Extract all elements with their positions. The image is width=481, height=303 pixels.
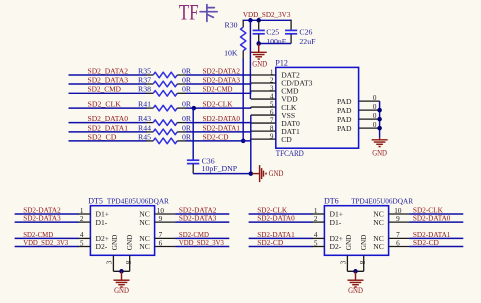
wire SD2_DATA1 <box>69 131 147 133</box>
resistor R30 <box>241 20 246 58</box>
svg-text:10pF_DNP: 10pF_DNP <box>202 164 238 173</box>
svg-text:R45: R45 <box>138 132 151 141</box>
svg-text:0: 0 <box>373 121 377 129</box>
svg-text:7: 7 <box>270 116 274 124</box>
wire SD2-DATA0 to P12 pin 7 <box>186 122 251 124</box>
svg-text:D2-: D2- <box>96 242 108 251</box>
svg-text:GND: GND <box>345 235 353 251</box>
svg-text:SD2-CLK: SD2-CLK <box>203 100 233 109</box>
svg-text:8: 8 <box>270 124 274 132</box>
wire PAD bus <box>379 101 381 138</box>
svg-text:D1-: D1- <box>330 218 342 227</box>
junction PAD 3 <box>377 117 382 122</box>
ESD diode DT6 body <box>324 206 388 256</box>
svg-text:4: 4 <box>270 92 274 100</box>
pin 9 stub right <box>389 221 410 223</box>
svg-text:1: 1 <box>270 68 274 76</box>
junction ground DT5 <box>119 269 124 274</box>
svg-text:R30: R30 <box>225 21 238 30</box>
capacitor C25 <box>253 20 265 43</box>
wire SD2-CLK to C36 <box>192 108 194 160</box>
svg-text:5: 5 <box>80 239 84 247</box>
svg-text:SD2_CMD: SD2_CMD <box>88 85 122 94</box>
wire SD2-DATA0 left <box>249 221 313 223</box>
svg-text:0: 0 <box>373 94 377 102</box>
wire SD2_CD <box>69 140 147 142</box>
svg-text:NC: NC <box>373 218 384 227</box>
wire SD2_DATA3 <box>69 83 147 85</box>
svg-text:VDD_SD2_3V3: VDD_SD2_3V3 <box>23 238 68 247</box>
ESD diode DT5 body <box>90 206 154 256</box>
junction ground DT6 <box>353 269 358 274</box>
wire SD2-DATA1 left <box>249 237 313 239</box>
svg-text:NC: NC <box>139 242 150 251</box>
svg-text:SD2_CD: SD2_CD <box>88 132 117 141</box>
svg-text:GND: GND <box>111 235 119 251</box>
wire R30 to SD2-CD <box>242 59 244 141</box>
svg-text:TPD4E05U06DQAR: TPD4E05U06DQAR <box>107 197 170 206</box>
wire SD2-CMD left <box>15 237 79 239</box>
wire SD2_CMD <box>69 92 147 94</box>
svg-text:VDD_SD2_3V3: VDD_SD2_3V3 <box>179 238 224 247</box>
pin 8 stub bottom <box>129 255 131 271</box>
svg-text:R38: R38 <box>138 85 151 94</box>
pin 6 stub right <box>155 246 176 248</box>
svg-text:DT6: DT6 <box>324 197 339 206</box>
wire SD2-DATA0 right <box>409 221 463 223</box>
svg-text:C25: C25 <box>266 27 279 36</box>
ground DT5 <box>114 271 130 287</box>
svg-text:D2-: D2- <box>330 242 342 251</box>
resistor R38 <box>146 91 186 97</box>
resistor R41 <box>146 105 186 111</box>
junction cap bottom <box>256 41 261 46</box>
svg-text:2: 2 <box>80 215 84 223</box>
svg-text:PAD: PAD <box>337 106 352 115</box>
svg-text:GND: GND <box>372 148 387 157</box>
pin 1 stub <box>251 74 276 76</box>
svg-text:SD2-DATA3: SD2-DATA3 <box>179 214 217 223</box>
wire cap bottoms <box>259 43 291 45</box>
pin 3 stub bottom <box>112 255 114 271</box>
junction PAD 2 <box>377 108 382 113</box>
svg-text:0R: 0R <box>182 114 192 123</box>
pin 5 stub left <box>312 246 324 248</box>
wire SD2_CLK <box>69 107 147 109</box>
svg-text:5: 5 <box>314 239 318 247</box>
ground under C25 <box>251 44 267 60</box>
svg-text:R37: R37 <box>138 75 151 84</box>
junction C25 top <box>256 18 261 23</box>
svg-text:CD: CD <box>281 135 292 144</box>
svg-text:0R: 0R <box>182 75 192 84</box>
wire SD2-CD to P12 pin 9 <box>186 139 251 141</box>
svg-text:C26: C26 <box>299 27 312 36</box>
svg-text:SD2_DATA0: SD2_DATA0 <box>88 114 129 123</box>
svg-text:TFCARD: TFCARD <box>276 149 304 158</box>
connector P12 body <box>276 67 359 148</box>
svg-text:SD2-DATA2: SD2-DATA2 <box>203 66 241 75</box>
svg-text:1: 1 <box>80 207 84 215</box>
pin 6 stub right <box>389 246 410 248</box>
svg-text:10K: 10K <box>224 49 238 58</box>
pin 9 stub <box>251 138 276 140</box>
svg-text:SD2_CLK: SD2_CLK <box>88 100 122 109</box>
resistor R35 <box>146 72 186 78</box>
svg-text:0R: 0R <box>182 123 192 132</box>
pin 7 stub right <box>155 237 176 239</box>
pin 8 stub <box>251 130 276 132</box>
svg-text:1: 1 <box>314 207 318 215</box>
svg-text:SD2-CD: SD2-CD <box>257 238 283 247</box>
svg-text:R44: R44 <box>138 123 151 132</box>
wire VDD_SD2_3V3 left <box>15 246 79 248</box>
svg-text:SD2_DATA3: SD2_DATA3 <box>88 75 129 84</box>
wire SD2-CLK right <box>409 213 463 215</box>
wire VSS to ground <box>250 115 252 174</box>
svg-text:PAD: PAD <box>337 97 352 106</box>
svg-text:P12: P12 <box>275 58 287 67</box>
svg-text:NC: NC <box>139 218 150 227</box>
wire SD2-CD left <box>249 246 313 248</box>
svg-text:GND: GND <box>269 169 284 178</box>
svg-text:2: 2 <box>314 215 318 223</box>
ground DT6 <box>348 271 364 287</box>
PAD pin stub <box>359 100 380 102</box>
title glyph KA (card) drawn strokes <box>200 5 217 22</box>
ground PAD pins <box>372 138 388 147</box>
svg-text:R35: R35 <box>138 66 151 75</box>
wire SD2-CLK to P12 pin 5 <box>186 107 251 108</box>
pin 10 stub right <box>155 213 176 215</box>
svg-text:SD2_DATA2: SD2_DATA2 <box>88 66 129 75</box>
svg-text:SD2-DATA1: SD2-DATA1 <box>203 123 241 132</box>
svg-text:R41: R41 <box>138 100 151 109</box>
svg-text:0R: 0R <box>182 66 192 75</box>
pin 9 stub right <box>155 221 176 223</box>
wire SD2-CMD to P12 pin 3 <box>186 91 251 93</box>
pin 8 stub bottom <box>363 255 365 271</box>
svg-text:SD2-DATA3: SD2-DATA3 <box>203 75 241 84</box>
junction PAD 4 <box>377 126 382 131</box>
svg-text:3: 3 <box>106 260 114 264</box>
resistor R45 <box>146 138 186 144</box>
pin 7 stub <box>251 122 276 124</box>
svg-text:0: 0 <box>373 112 377 120</box>
PAD pin stub <box>359 109 380 111</box>
wire SD2-DATA2 left <box>15 213 79 215</box>
svg-text:GND: GND <box>348 286 363 295</box>
wire SD2-CD right <box>409 246 463 248</box>
svg-text:PAD: PAD <box>337 115 352 124</box>
svg-text:PAD: PAD <box>337 124 352 133</box>
svg-text:DT5: DT5 <box>88 197 103 206</box>
svg-text:GND: GND <box>252 59 267 68</box>
wire SD2-DATA1 right <box>409 237 463 239</box>
svg-text:5: 5 <box>270 100 274 108</box>
svg-text:NC: NC <box>373 242 384 251</box>
svg-text:9: 9 <box>270 132 274 140</box>
svg-text:8: 8 <box>359 260 367 264</box>
wire SD2-DATA2 to P12 pin 1 <box>186 74 251 76</box>
wire SD2-DATA3 to P12 pin 2 <box>186 82 251 85</box>
svg-text:0: 0 <box>373 103 377 111</box>
wire ground pins <box>347 270 363 272</box>
svg-text:SD2-DATA0: SD2-DATA0 <box>203 114 241 123</box>
svg-text:SD2-DATA3: SD2-DATA3 <box>23 214 61 223</box>
wire SD2_DATA0 <box>69 122 147 124</box>
pin 5 stub left <box>78 246 90 248</box>
svg-text:2: 2 <box>270 76 274 84</box>
pin 2 stub <box>251 82 276 84</box>
pin 4 stub <box>251 98 276 100</box>
svg-text:0R: 0R <box>182 132 192 141</box>
resistor R43 <box>146 120 186 126</box>
pin 4 stub left <box>78 237 90 239</box>
svg-text:100nF: 100nF <box>266 37 287 46</box>
PAD pin stub <box>359 118 380 120</box>
pin 6 stub <box>251 114 276 116</box>
pin 4 stub left <box>312 237 324 239</box>
svg-text:6: 6 <box>270 108 274 116</box>
wire SD2-CMD right <box>175 237 229 239</box>
junction VDD rail <box>248 18 253 23</box>
svg-text:R43: R43 <box>138 114 151 123</box>
ground sideways <box>252 165 266 182</box>
pin 3 stub bottom <box>346 255 348 271</box>
wire VDD rail to pin 4 <box>249 20 251 99</box>
svg-text:GND: GND <box>360 235 368 251</box>
capacitor C26 <box>285 20 297 44</box>
junction R30 / SD2-CD <box>241 139 246 144</box>
svg-text:SD2_DATA1: SD2_DATA1 <box>88 123 129 132</box>
pin 1 stub left <box>78 213 90 215</box>
svg-text:4: 4 <box>80 231 84 239</box>
pin 5 stub <box>251 106 276 108</box>
svg-text:4: 4 <box>314 231 318 239</box>
wire SD2-DATA3 right <box>175 221 229 223</box>
capacitor C36 <box>187 160 199 173</box>
resistor R37 <box>146 81 186 87</box>
svg-text:0R: 0R <box>182 100 192 109</box>
wire SD2_DATA2 <box>69 74 147 76</box>
wire SD2-CLK left <box>249 213 313 215</box>
wire SD2-DATA3 left <box>15 221 79 223</box>
svg-text:D1-: D1- <box>96 218 108 227</box>
pin 3 stub <box>251 90 276 92</box>
pin 2 stub left <box>78 221 90 223</box>
wire ground pins <box>113 270 129 272</box>
PAD pin stub <box>359 127 380 129</box>
svg-text:0R: 0R <box>182 85 192 94</box>
svg-text:3: 3 <box>270 84 274 92</box>
junction SD2-CLK / C36 <box>192 106 197 111</box>
wire VDD_SD2_3V3 right <box>175 246 229 248</box>
svg-text:GND: GND <box>114 286 129 295</box>
svg-text:SD2-CMD: SD2-CMD <box>203 85 233 94</box>
svg-text:SD2-DATA0: SD2-DATA0 <box>257 214 295 223</box>
wire SD2-DATA2 right <box>175 213 229 215</box>
wire power rail <box>243 19 292 21</box>
svg-text:SD2-CD: SD2-CD <box>203 132 229 141</box>
svg-text:3: 3 <box>340 260 348 264</box>
svg-text:GND: GND <box>126 235 134 251</box>
pin 2 stub left <box>312 221 324 223</box>
pin 10 stub right <box>389 213 410 215</box>
svg-text:TF: TF <box>179 1 199 25</box>
svg-text:8: 8 <box>125 260 133 264</box>
svg-text:TPD4E05U06DQAR: TPD4E05U06DQAR <box>351 197 414 206</box>
svg-text:SD2-DATA0: SD2-DATA0 <box>413 214 451 223</box>
resistor R44 <box>146 129 186 135</box>
pin 7 stub right <box>389 237 410 239</box>
wire SD2-DATA1 to P12 pin 8 <box>186 130 251 133</box>
svg-text:VDD_SD2_3V3: VDD_SD2_3V3 <box>243 10 291 19</box>
svg-text:22uF: 22uF <box>299 37 316 46</box>
wire C36 to ground node <box>193 173 251 175</box>
svg-text:SD2-CD: SD2-CD <box>413 238 439 247</box>
junction C36/VSS/GND <box>249 171 254 176</box>
pin 1 stub left <box>312 213 324 215</box>
